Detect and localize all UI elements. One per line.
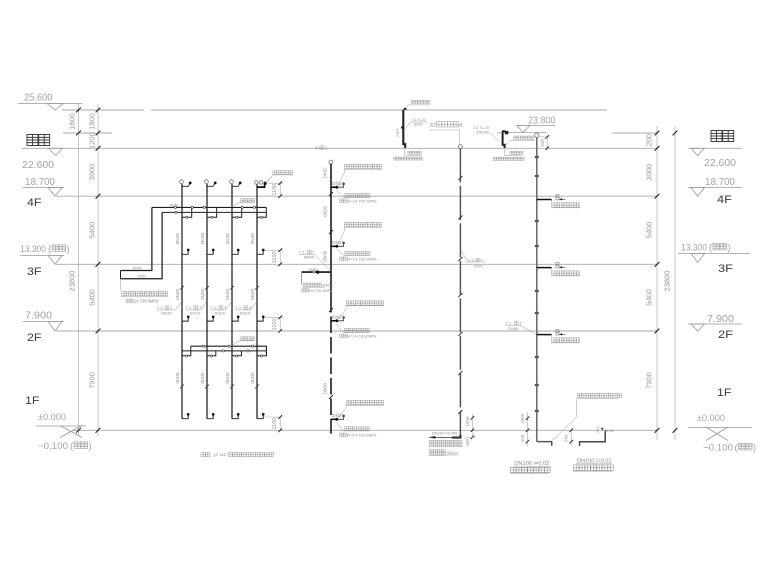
svg-text:23.800: 23.800 <box>528 115 556 127</box>
label to equipment room (top right of risers) <box>266 175 273 184</box>
svg-text:DN50: DN50 <box>304 255 315 260</box>
svg-text:DN50: DN50 <box>133 266 142 270</box>
joint tick <box>458 257 462 261</box>
svg-text:H=14.730.2MPa: H=14.730.2MPa <box>347 433 377 438</box>
svg-text:22.600: 22.600 <box>22 159 54 171</box>
joint tick <box>458 410 462 414</box>
note discharge to roof 2 <box>510 151 523 154</box>
svg-text:7-1-: 7-1- <box>185 305 193 310</box>
svg-text:7-2 7L-10: 7-2 7L-10 <box>473 126 489 130</box>
svg-text:): ) <box>67 244 70 255</box>
label side-entry rain hopper 2 <box>514 136 535 139</box>
dims 1000/500 left of riser D exit <box>527 412 529 446</box>
svg-text:DN50: DN50 <box>322 250 327 262</box>
riser bottom feet <box>182 416 188 419</box>
label side-entry rain hopper <box>411 100 430 103</box>
svg-text:DN100: DN100 <box>225 288 230 300</box>
feed pipes left end <box>120 271 122 279</box>
left dimension line 1 <box>78 104 80 436</box>
pipe F from 0.000 <box>580 430 606 446</box>
branch with PRV at y=187.2 <box>331 186 336 188</box>
joint coupling bar <box>535 410 539 412</box>
rain hopper 2 standpipe <box>503 131 505 148</box>
svg-text:5400: 5400 <box>88 222 97 239</box>
svg-text:DN100: DN100 <box>215 312 226 316</box>
joint tick <box>458 176 462 180</box>
svg-text:18.700: 18.700 <box>705 176 735 188</box>
svg-text:: 1F~4F: : 1F~4F <box>210 453 226 458</box>
stepped feed pipe 2 <box>121 212 163 278</box>
3F branch fittings on risers <box>182 251 188 254</box>
left roof label 屋面 <box>27 135 50 146</box>
svg-text:DN75: DN75 <box>414 123 423 127</box>
riser WL-3 top vent fitting <box>230 180 234 184</box>
branch with PRV at y=320.8 <box>331 320 336 322</box>
svg-text:3900: 3900 <box>645 164 654 181</box>
buried-pipe label bottom <box>241 337 255 340</box>
svg-text:DN75: DN75 <box>396 128 400 136</box>
svg-text:4F: 4F <box>717 194 732 206</box>
svg-text:DN50: DN50 <box>508 326 519 331</box>
branch with PRV at y=419.3 <box>331 418 336 420</box>
svg-text:23800: 23800 <box>663 271 672 292</box>
svg-text:DN100: DN100 <box>175 372 180 384</box>
joint coupling bar <box>535 245 539 247</box>
svg-text:7-1-: 7-1- <box>235 305 243 310</box>
riser joint ticks <box>180 385 184 389</box>
right marker 22.600 <box>691 148 705 155</box>
2F level line 7.900 <box>56 330 658 332</box>
svg-text:DN100: DN100 <box>250 372 255 384</box>
joint tick <box>329 192 333 196</box>
note discharge to roof <box>408 151 421 154</box>
svg-text:−0.100: −0.100 <box>703 443 733 454</box>
joint mark <box>401 126 403 128</box>
dim 1100 bottom <box>265 416 284 418</box>
riser WL-2 <box>206 184 208 419</box>
svg-text:3F: 3F <box>27 266 42 278</box>
riser D bottom exit <box>537 442 552 446</box>
joint coupling bar <box>535 290 539 292</box>
svg-text:DN25: DN25 <box>332 413 345 419</box>
3F level line 13.300 <box>56 263 658 265</box>
joint coupling bar <box>535 312 539 314</box>
svg-text:H4.730,0MPa: H4.730,0MPa <box>309 289 333 293</box>
joint coupling bar <box>535 156 539 158</box>
svg-text:DN100: DN100 <box>225 372 230 384</box>
svg-text:): ) <box>728 243 731 254</box>
svg-text:7-1-: 7-1- <box>210 305 218 310</box>
svg-text:DN32: DN32 <box>322 167 327 179</box>
svg-text:1200: 1200 <box>88 132 97 149</box>
svg-text:7.900: 7.900 <box>707 313 734 325</box>
svg-text:8-: 8- <box>315 145 319 150</box>
fitting circles on mains <box>174 206 176 208</box>
left marker 22.600 <box>49 148 63 155</box>
leader tag Y-1 YL-7 <box>461 249 468 262</box>
svg-text:1000: 1000 <box>520 413 525 424</box>
joint tick <box>458 293 462 297</box>
svg-text:1800: 1800 <box>68 113 77 130</box>
svg-text:DN75: DN75 <box>474 264 483 268</box>
level line 23.800 <box>63 132 112 134</box>
svg-text:DN100: DN100 <box>175 232 180 244</box>
svg-text:300: 300 <box>465 439 470 447</box>
svg-text:1100: 1100 <box>272 318 278 330</box>
svg-text:5400: 5400 <box>645 289 654 306</box>
fitting circles on below-2F mains <box>203 345 205 347</box>
svg-text:1100: 1100 <box>272 251 278 263</box>
svg-text:7900: 7900 <box>88 372 97 389</box>
svg-text:500: 500 <box>520 434 525 442</box>
svg-text:DN50: DN50 <box>138 275 147 279</box>
svg-text:1F: 1F <box>717 387 732 399</box>
buried-pipe label top <box>241 199 255 202</box>
svg-text:1F: 1F <box>25 395 40 407</box>
riser mid joint ticks + DN100 labels <box>180 286 184 290</box>
svg-text:2F: 2F <box>27 332 42 344</box>
dim 1100 top <box>268 182 284 184</box>
stepped feed pipe 1 from firefighting loop <box>121 207 152 270</box>
middle riser top circle <box>329 160 333 164</box>
joint coupling bar <box>535 175 539 177</box>
level line 25.600 <box>62 109 144 111</box>
rain leader bottom elbow + discharge arrow <box>452 435 461 438</box>
svg-text:4F: 4F <box>27 197 42 209</box>
svg-text:1100: 1100 <box>272 184 278 196</box>
svg-text:3F: 3F <box>718 263 733 275</box>
svg-text:±0.000: ±0.000 <box>38 412 66 423</box>
svg-text:): ) <box>753 443 756 454</box>
below-2F jog stubs <box>182 346 191 356</box>
left zero X marker <box>60 426 82 438</box>
joint tick <box>458 216 462 220</box>
svg-text:DN100: DN100 <box>200 372 205 384</box>
svg-text:150mm: 150mm <box>446 451 459 457</box>
svg-text:): ) <box>89 441 92 452</box>
dim 1100 mid <box>265 249 284 251</box>
svg-text:DN25: DN25 <box>332 181 345 187</box>
svg-text:H=14.730.2MPa: H=14.730.2MPa <box>347 334 377 339</box>
svg-text:DN50: DN50 <box>309 268 318 272</box>
svg-text:DN150 i=0.005: DN150 i=0.005 <box>432 432 458 436</box>
svg-text:-1: -1 <box>324 145 328 150</box>
svg-text:300: 300 <box>595 426 600 433</box>
joint tick <box>458 371 462 375</box>
svg-text:2F: 2F <box>718 329 733 341</box>
note: connects to 1F hydrant loop <box>122 291 168 295</box>
svg-text:200: 200 <box>645 134 654 147</box>
svg-text:7-1-: 7-1- <box>157 305 165 310</box>
svg-text:1000: 1000 <box>465 416 470 427</box>
svg-text:13.300: 13.300 <box>20 244 46 255</box>
caption note <box>201 453 210 457</box>
joint coupling bar <box>535 220 539 222</box>
dim 800 at riser D top <box>539 136 549 138</box>
small zero pointer <box>601 428 603 430</box>
right dimension line 1 <box>656 126 658 440</box>
horizontal main pipe lower <box>162 211 266 213</box>
svg-text:DN100: DN100 <box>175 288 180 300</box>
riser WL-3 <box>231 184 233 419</box>
svg-text:H=14.750.2MPa: H=14.750.2MPa <box>348 198 378 203</box>
svg-text:-DN50: -DN50 <box>322 283 333 287</box>
right dimension line 2 <box>674 126 676 440</box>
joint tick <box>329 230 333 234</box>
roof level line 22.600 <box>22 147 658 149</box>
svg-text:DN100: DN100 <box>240 312 251 316</box>
svg-text:DN100: DN100 <box>161 312 172 316</box>
joint tick <box>458 332 462 336</box>
svg-text:DN100: DN100 <box>250 288 255 300</box>
right roof label 屋面 <box>711 131 734 142</box>
below-2F main lower line <box>182 350 266 352</box>
svg-text:DN50: DN50 <box>322 383 327 395</box>
svg-text:DN32: DN32 <box>322 205 327 217</box>
svg-text:5400: 5400 <box>88 289 97 306</box>
svg-text:H=14.750.2MPa: H=14.750.2MPa <box>348 256 378 261</box>
dim 1000/300 at rain leader bottom <box>471 414 473 438</box>
svg-text:DN100: DN100 <box>250 232 255 244</box>
svg-text:DN100: DN100 <box>225 232 230 244</box>
joint coupling bar <box>535 384 539 386</box>
riser WL-1 <box>181 184 183 419</box>
svg-text:DN25: DN25 <box>332 314 345 320</box>
joint tick <box>329 308 333 312</box>
right zero X marker <box>706 427 728 441</box>
riser D top circle <box>535 133 539 137</box>
middle riser pipe <box>330 164 332 296</box>
svg-text:22.600: 22.600 <box>704 157 736 169</box>
1F level line 0.000 <box>72 429 658 431</box>
svg-text:7-1-: 7-1- <box>506 321 514 326</box>
riser D floor branch y=267.6 <box>537 267 552 269</box>
joint tick <box>329 395 333 399</box>
riser WL-4 top fitting with double circles <box>255 181 259 185</box>
riser bypass jogs on mains <box>182 207 192 217</box>
riser WL-4 <box>256 184 258 419</box>
rain hopper YL-5 standpipe <box>403 110 405 148</box>
svg-text:18.700: 18.700 <box>25 176 55 188</box>
hopper inlet mark <box>404 108 407 110</box>
note: municipal water inlet <box>303 283 321 287</box>
riser D floor branch y=199.5 <box>537 199 552 201</box>
branch with PRV at y=246.3 <box>331 245 336 247</box>
note below-1F horizontal pipes <box>577 393 621 397</box>
svg-text:13.300: 13.300 <box>681 243 707 254</box>
left inlet stub with valve <box>302 271 331 273</box>
4F level line 18.700 <box>56 195 658 197</box>
left dimension line 2 <box>97 104 99 436</box>
svg-text:7900: 7900 <box>645 372 654 389</box>
svg-text:DN100: DN100 <box>477 131 489 135</box>
horizontal main pipe upper (under 4F slab) <box>152 206 266 208</box>
svg-text:1800: 1800 <box>88 113 97 130</box>
2F branch fittings on risers <box>182 318 188 321</box>
svg-text:5400: 5400 <box>645 222 654 239</box>
svg-text:DN100: DN100 <box>190 312 201 316</box>
svg-text:DN25: DN25 <box>332 240 345 246</box>
svg-text:DN100: DN100 <box>200 232 205 244</box>
rain leader pipe <box>459 148 461 436</box>
svg-text:500: 500 <box>563 434 568 442</box>
svg-text:±0.000: ±0.000 <box>697 413 725 424</box>
svg-text:23800: 23800 <box>68 271 77 292</box>
dim 1100 at 2F <box>265 316 284 318</box>
riser WL-2 top vent fitting <box>205 180 209 184</box>
svg-text:14.730.0MPa: 14.730.0MPa <box>134 299 159 304</box>
joint coupling bar <box>535 356 539 358</box>
svg-text:87: 87 <box>430 123 437 129</box>
svg-text:1100: 1100 <box>272 418 278 430</box>
87 hopper outlet circle on roof <box>459 145 463 149</box>
riser D floor branch y=334.6 <box>537 334 552 336</box>
riser WL-1 top vent fitting <box>180 180 184 184</box>
svg-text:800: 800 <box>540 139 545 147</box>
svg-text:3900: 3900 <box>88 164 97 181</box>
svg-text:−0.100: −0.100 <box>38 441 68 452</box>
svg-text:25.600: 25.600 <box>24 92 53 104</box>
riser D pipe <box>536 137 538 441</box>
dim 500 <box>570 430 572 446</box>
svg-text:±0.00: ±0.00 <box>604 429 613 433</box>
below-2F main upper line <box>191 346 267 356</box>
svg-text:7.900: 7.900 <box>25 310 52 322</box>
svg-text:DN100: DN100 <box>200 288 205 300</box>
